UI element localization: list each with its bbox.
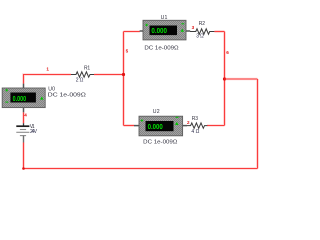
svg-text:2 Ω: 2 Ω [76, 77, 84, 83]
wire net5 vertical [123, 32, 125, 126]
battery V1 [16, 123, 29, 142]
ammeter U1 [140, 20, 191, 40]
wire halo [24, 32, 258, 169]
svg-text:24 V: 24 V [30, 129, 38, 135]
wire to U1 left pin [124, 31, 140, 33]
wire R3 right to net6 [207, 125, 225, 127]
resistor R3 [187, 123, 207, 128]
svg-text:DC 1e-009Ω: DC 1e-009Ω [48, 93, 86, 99]
wire right rail vertical [257, 79, 259, 169]
svg-text:4: 4 [24, 112, 27, 117]
resistor R1 [71, 72, 94, 77]
svg-text:U2: U2 [153, 109, 160, 115]
svg-text:DC 1e-009Ω: DC 1e-009Ω [143, 140, 178, 146]
corner dot bottom left [22, 167, 25, 170]
wire to U2 left pin [124, 125, 135, 127]
junction node 6 [223, 77, 226, 80]
svg-text:5: 5 [126, 48, 129, 53]
wire U0 bottom to battery plus [23, 112, 25, 123]
svg-text:R2: R2 [199, 21, 205, 27]
wire junction6 to right rail [225, 78, 258, 80]
wire node1 horizontal (U0 top to R1 left) [24, 75, 72, 84]
resistor R2 [190, 29, 214, 34]
svg-text:R1: R1 [84, 66, 90, 72]
svg-text:0.000: 0.000 [151, 26, 167, 35]
svg-text:U1: U1 [161, 15, 168, 21]
junction node 5 [122, 73, 125, 76]
svg-text:4 Ω: 4 Ω [191, 129, 199, 135]
wire node1 R1 right to junction 5 [94, 74, 124, 76]
svg-text:0.000: 0.000 [13, 94, 27, 103]
svg-text:3: 3 [192, 25, 195, 30]
svg-text:R3: R3 [192, 116, 198, 122]
wire R2 right to corner [214, 31, 224, 33]
svg-text:6: 6 [226, 50, 229, 55]
svg-text:DC 1e-009Ω: DC 1e-009Ω [144, 46, 179, 52]
ammeter U0 [2, 84, 45, 113]
svg-text:3 Ω: 3 Ω [196, 34, 204, 40]
svg-text:2: 2 [187, 120, 190, 125]
ammeter U2 [134, 116, 187, 136]
wire net6 vertical [224, 32, 226, 126]
wire bottom rail [24, 168, 258, 170]
wire battery minus to bottom rail [23, 143, 25, 169]
svg-text:0.000: 0.000 [148, 122, 163, 131]
svg-text:1: 1 [46, 67, 49, 72]
